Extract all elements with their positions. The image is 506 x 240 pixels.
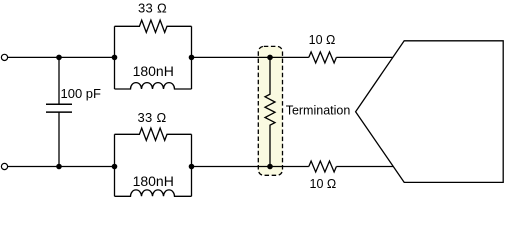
resistor R3 10 ohm (top) bbox=[309, 52, 337, 63]
wire: bottom 10 ohm to amplifier bbox=[336, 166, 393, 168]
svg-text:10 Ω: 10 Ω bbox=[309, 33, 336, 47]
wire: top input to top RL network bbox=[8, 56, 115, 58]
termination highlight box bbox=[258, 46, 282, 175]
svg-text:100 pF: 100 pF bbox=[61, 86, 102, 101]
wire: left edge of top RL network bbox=[114, 26, 116, 89]
svg-text:180nH: 180nH bbox=[133, 63, 174, 79]
node: bottom network left bbox=[112, 164, 118, 170]
wire: bottom input to bottom RL network bbox=[8, 166, 115, 168]
wire: right edge of top RL network bbox=[191, 26, 193, 89]
node: top network right bbox=[189, 55, 195, 61]
resistor R2 33 ohm (bottom network, with box top rail) bbox=[115, 128, 192, 140]
inductor L1 180nH (top network, with box bottom rail) bbox=[115, 83, 192, 89]
wire: top network to 10 ohm resistor bbox=[192, 56, 309, 58]
svg-text:180nH: 180nH bbox=[133, 173, 174, 189]
node: capacitor top junction bbox=[56, 55, 62, 61]
node: bottom network right bbox=[189, 164, 195, 170]
svg-text:10 Ω: 10 Ω bbox=[310, 177, 337, 191]
node: termination bottom bbox=[267, 164, 273, 170]
capacitor C1 bbox=[46, 57, 72, 166]
wire: top 10 ohm to amplifier bbox=[336, 56, 393, 58]
input terminal (top) bbox=[1, 54, 7, 60]
termination resistor (vertical) bbox=[265, 57, 275, 166]
wire: bottom network to 10 ohm resistor bbox=[192, 166, 309, 168]
wire: left edge of bottom RL network bbox=[114, 134, 116, 196]
svg-text:Termination: Termination bbox=[286, 104, 351, 118]
wire: right edge of bottom RL network bbox=[191, 134, 193, 196]
node: termination top bbox=[267, 55, 273, 61]
svg-text:33 Ω: 33 Ω bbox=[138, 1, 167, 16]
svg-text:33 Ω: 33 Ω bbox=[138, 110, 167, 125]
node: top network left bbox=[112, 55, 118, 61]
input terminal (bottom) bbox=[1, 163, 7, 169]
inductor L2 180nH (bottom network, with box bottom rail) bbox=[115, 190, 192, 196]
node: capacitor bottom junction bbox=[56, 164, 62, 170]
amplifier / receiver input polygon bbox=[356, 41, 504, 183]
resistor R4 10 ohm (bottom) bbox=[309, 161, 337, 172]
resistor R1 33 ohm (top network, with box top rail) bbox=[115, 20, 192, 32]
